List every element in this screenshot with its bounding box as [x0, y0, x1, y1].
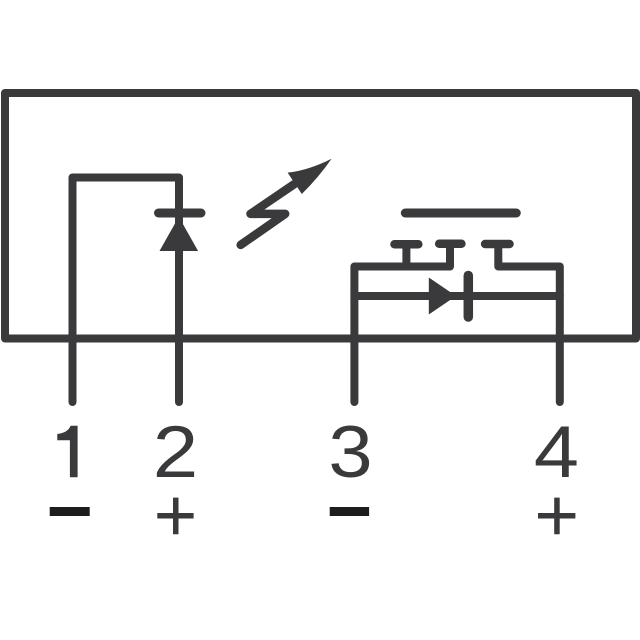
- stub C, right source rail, right vertical to pin4: [498, 247, 560, 402]
- MOSFET gate contact bar B: [439, 240, 461, 249]
- stub A to source rail: [402, 247, 410, 267]
- svg-text:3: 3: [328, 412, 372, 493]
- svg-text:2: 2: [153, 412, 198, 493]
- body diode triangle: [429, 278, 456, 315]
- MOSFET gate contact bar A: [395, 240, 419, 249]
- light emission arrowhead: [288, 159, 332, 194]
- device outline box: [5, 93, 636, 339]
- stub B, left source rail, left vertical to pin3: [354, 247, 450, 402]
- polarity minus for pin 1: [50, 507, 90, 516]
- light emission arrow zigzag shaft: [241, 184, 294, 245]
- LED D1 cathode bar: [159, 209, 202, 218]
- drain-drain rail with body diode: [354, 292, 559, 300]
- pin number 1: [57, 426, 77, 478]
- MOSFET gate top plate bar: [405, 209, 516, 218]
- MOSFET gate contact bar C: [485, 240, 509, 249]
- wire pin1 to LED anode loop to pin2: [73, 178, 180, 403]
- svg-text:4: 4: [534, 412, 579, 493]
- polarity plus for pin 4: [538, 498, 575, 535]
- LED D1 triangle (anode, pointing up): [160, 217, 199, 251]
- polarity minus for pin 3: [330, 507, 369, 516]
- polarity plus for pin 2: [157, 498, 193, 535]
- body diode cathode bar: [464, 276, 474, 318]
